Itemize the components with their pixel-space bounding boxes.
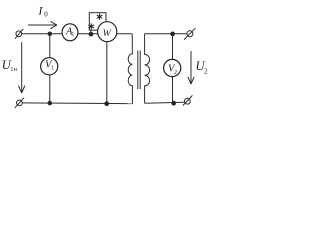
voltmeter V2 circle [164,59,181,76]
terminal output bottom-right [183,95,193,105]
current arrow I0 [28,21,57,28]
transformer T1 primary winding [128,34,132,104]
wire V2 branch vertical [172,34,174,103]
svg-text:2: 2 [204,68,208,76]
terminal input bottom-left [15,98,24,108]
svg-text:1: 1 [71,32,74,38]
svg-text:2: 2 [174,70,177,76]
node junction dot bottom V1 [48,101,52,105]
terminal input top-left [15,29,23,39]
wire W bottom lead [106,38,108,104]
svg-text:0: 0 [44,11,48,19]
wire top rail secondary side [145,33,187,35]
transformer T1 secondary winding [145,34,150,104]
svg-text:1: 1 [51,66,54,72]
svg-text:I: I [38,6,44,18]
wire bottom rail primary side [22,102,133,105]
wire top rail primary side [22,33,133,35]
wire bottom rail secondary side [145,102,185,103]
ammeter A1 circle [62,24,78,41]
node junction dot bottom W lead [105,102,109,106]
voltmeter V1 circle [41,58,58,75]
wattmeter polarity asterisk lower [89,23,94,29]
voltage arrow U1n [19,42,25,93]
node junction dot W voltage tap [89,32,93,36]
svg-text:1н: 1н [10,66,17,73]
svg-text:W: W [103,28,112,39]
wattmeter polarity asterisk upper [97,14,102,20]
transformer core line 2 [139,51,141,90]
terminal output top-right [184,28,195,39]
wire W voltage-coil stub [90,30,92,34]
wattmeter W circle [98,22,117,42]
wire V1 branch vertical [49,34,51,103]
node junction dot bottom V2 [172,101,176,105]
wattmeter voltage-coil box [89,13,106,31]
node junction dot top V2 tap [171,32,175,36]
transformer core line 1 [137,51,139,90]
voltage arrow U2 [188,51,194,84]
node junction dot top V1 tap [48,32,52,36]
